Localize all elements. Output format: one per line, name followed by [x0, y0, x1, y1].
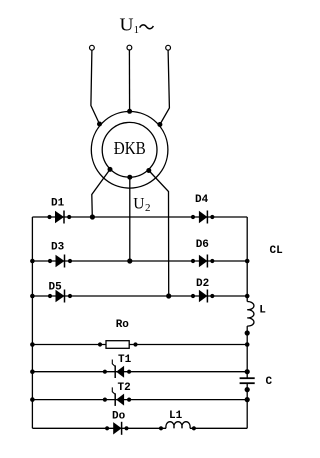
diode D1	[47, 211, 71, 224]
tilde of U1	[140, 25, 154, 29]
svg-text:U: U	[133, 195, 144, 212]
diode Do	[105, 422, 129, 435]
node left bus row2	[30, 259, 35, 264]
svg-text:2: 2	[145, 202, 151, 214]
motor DKB inner circle	[102, 122, 157, 177]
thyristor T2	[103, 387, 131, 406]
svg-text:D2: D2	[196, 278, 209, 290]
wire row7 bottom left	[32, 427, 166, 429]
node right bus row2	[245, 259, 250, 264]
svg-text:D1: D1	[51, 198, 65, 210]
svg-text:T1: T1	[118, 354, 132, 366]
label Do	[112, 411, 126, 423]
label C	[266, 376, 273, 388]
rotor node bottom	[127, 175, 132, 180]
diode D2	[191, 290, 215, 303]
motor DKB outer circle	[91, 112, 168, 189]
svg-text:D5: D5	[49, 282, 63, 294]
label D1	[51, 198, 65, 210]
svg-text:D3: D3	[51, 242, 65, 254]
svg-text:1: 1	[134, 25, 139, 36]
node right bus row3	[245, 294, 250, 299]
label U2	[133, 195, 150, 214]
label L	[259, 305, 266, 317]
label T1	[118, 354, 132, 366]
node capacitor lower lead	[245, 387, 250, 392]
diode D4	[191, 211, 215, 224]
label CL	[270, 245, 284, 257]
wire row3 D5-D2	[32, 295, 247, 297]
thyristor T1	[103, 360, 131, 379]
svg-text:ĐKB: ĐKB	[114, 138, 146, 158]
svg-text:D4: D4	[195, 194, 209, 206]
wire rotor left phase down	[92, 169, 110, 217]
wire row4 Ro	[32, 344, 247, 346]
rotor node left	[108, 167, 113, 172]
label T2	[118, 382, 131, 394]
wire terminal B to stator	[128, 50, 130, 111]
rotor node right	[146, 168, 151, 173]
svg-text:T2: T2	[118, 382, 131, 394]
node left bus row5	[30, 369, 35, 374]
left bus wire	[31, 217, 33, 428]
wire row2 D3-D6	[32, 260, 247, 262]
node L1 right	[192, 426, 196, 430]
svg-text:C: C	[266, 376, 273, 388]
svg-text:L: L	[259, 305, 266, 317]
right bus wire lower	[246, 384, 248, 428]
label D3	[51, 242, 65, 254]
inductor L	[247, 302, 254, 327]
label D5	[49, 282, 63, 294]
svg-text:Ro: Ro	[116, 319, 130, 331]
motor label DKB	[114, 138, 146, 158]
node right bus row6	[245, 397, 250, 402]
capacitor C bottom plate	[240, 382, 255, 384]
diode D3	[48, 255, 72, 268]
node row1 phase junction	[90, 214, 95, 219]
diode D6	[191, 255, 215, 268]
label U1~	[120, 14, 140, 36]
svg-text:CL: CL	[270, 245, 284, 257]
label D2	[196, 278, 209, 290]
wire row1 D1-D4	[32, 216, 247, 218]
label Ro	[116, 319, 130, 331]
wire terminal C to stator	[160, 50, 170, 124]
wire row7 bottom right	[190, 427, 247, 429]
svg-text:Do: Do	[112, 411, 126, 423]
svg-text:D6: D6	[196, 239, 209, 251]
wire terminal A to stator	[91, 50, 100, 124]
inductor L1	[166, 422, 190, 429]
resistor Ro	[98, 341, 138, 349]
node left bus row4	[30, 342, 35, 347]
node left bus row6	[30, 397, 35, 402]
label D6	[196, 239, 209, 251]
svg-text:L1: L1	[169, 410, 183, 422]
node right bus row4	[245, 342, 250, 347]
wire row6 T2	[32, 399, 247, 401]
right bus wire upper	[246, 217, 248, 302]
svg-text:U: U	[120, 14, 134, 34]
label L1	[169, 410, 183, 422]
right bus wire mid	[246, 326, 248, 378]
terminal B (middle input)	[127, 45, 132, 50]
node row2 phase junction	[127, 258, 132, 263]
node L bottom	[245, 330, 250, 335]
node L1 left	[159, 426, 163, 430]
terminal C (right input)	[166, 45, 171, 50]
wire row5 T1	[32, 371, 247, 373]
stator node right	[157, 122, 162, 127]
wire rotor middle phase down	[129, 177, 131, 261]
stator node top	[127, 109, 132, 114]
node right bus row5	[245, 369, 250, 374]
node left bus row3	[30, 294, 35, 299]
capacitor C top plate	[240, 377, 255, 379]
diode D5	[48, 290, 72, 303]
label D4	[195, 194, 209, 206]
node row3 phase junction	[166, 293, 171, 298]
terminal A (left input)	[90, 45, 95, 50]
wire rotor right phase down	[149, 171, 169, 297]
stator node left	[97, 122, 102, 127]
